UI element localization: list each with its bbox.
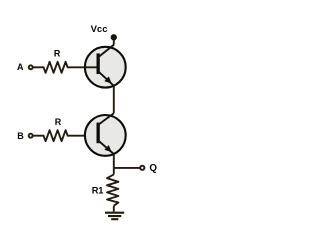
Vcc terminal dot — [111, 34, 117, 40]
svg-text:R: R — [54, 49, 61, 59]
ground — [105, 213, 124, 220]
svg-text:A: A — [17, 62, 24, 72]
wire resistor R to base of Q2 — [68, 135, 97, 137]
svg-text:R1: R1 — [92, 185, 103, 195]
transistor Q1 — [85, 45, 126, 88]
svg-text:R: R — [55, 117, 62, 127]
wire Q1 collector to Vcc — [113, 39, 115, 45]
wire resistor R to base of Q1 — [68, 66, 97, 68]
resistor R1 — [107, 174, 118, 205]
wire R1 to ground — [113, 206, 115, 212]
node A terminal — [29, 65, 33, 69]
wire output node to Q terminal — [114, 167, 140, 169]
svg-text:Vcc: Vcc — [91, 24, 108, 35]
wire Q1 emitter to Q2 collector — [113, 86, 115, 113]
svg-text:Q: Q — [149, 163, 157, 174]
wire A to resistor R — [34, 66, 44, 68]
resistor R (input A) — [44, 62, 68, 73]
wire Q2 emitter down to output node — [113, 154, 115, 168]
wire output node to resistor R1 — [113, 168, 115, 175]
wire B to resistor R — [34, 135, 44, 137]
node Q terminal — [140, 166, 144, 170]
resistor R (input B) — [44, 130, 68, 141]
svg-text:B: B — [17, 131, 24, 141]
transistor Q2 — [85, 113, 126, 156]
node B terminal — [29, 134, 33, 138]
